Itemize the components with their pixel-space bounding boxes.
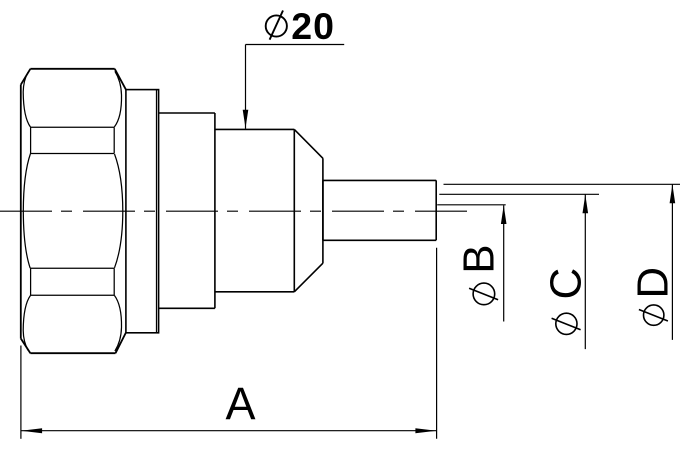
- shaft: [323, 180, 436, 240]
- dim A right extension line: [436, 248, 438, 439]
- dim dia20 arrowhead: [243, 110, 249, 129]
- dim A dimension line: [21, 430, 437, 432]
- hex nut flat edges (bands): [30, 127, 114, 295]
- dia symbol of dim D: [639, 305, 668, 325]
- dim A left extension line: [20, 346, 22, 439]
- dim D extension line: [444, 183, 681, 185]
- hex nut body outline: [21, 69, 126, 353]
- svg-text:20: 20: [291, 5, 335, 47]
- dia symbol of dim C: [552, 313, 581, 334]
- dim C arrowhead: [583, 195, 589, 214]
- dim D dimension line: [671, 185, 673, 340]
- dia symbol of dim B: [469, 283, 498, 305]
- dim A left arrowhead: [21, 428, 42, 433]
- svg-text:B: B: [454, 244, 503, 273]
- dim B extension line: [437, 204, 506, 206]
- dim dia20 leader shoulder: [246, 44, 345, 46]
- step3 cylinder (dia 20): [215, 129, 294, 291]
- dim C extension line: [439, 193, 599, 195]
- flange: [126, 90, 159, 333]
- hex nut chamfer arcs: [23, 71, 123, 351]
- step2 cylinder: [159, 113, 215, 308]
- svg-text:C: C: [541, 268, 590, 300]
- dim A right arrowhead: [415, 428, 436, 433]
- dim B arrowhead: [501, 205, 507, 224]
- dia symbol of dia20: [266, 11, 287, 40]
- centerline: [0, 210, 467, 212]
- dim D arrowhead: [670, 185, 676, 204]
- flange inner edge: [156, 90, 158, 333]
- svg-text:A: A: [226, 378, 256, 429]
- cone chamfer section: [294, 129, 323, 291]
- dim dia20 leader vertical: [245, 45, 247, 129]
- dim C dimension line: [584, 195, 586, 350]
- dim B dimension line: [503, 205, 505, 321]
- svg-text:D: D: [628, 267, 677, 299]
